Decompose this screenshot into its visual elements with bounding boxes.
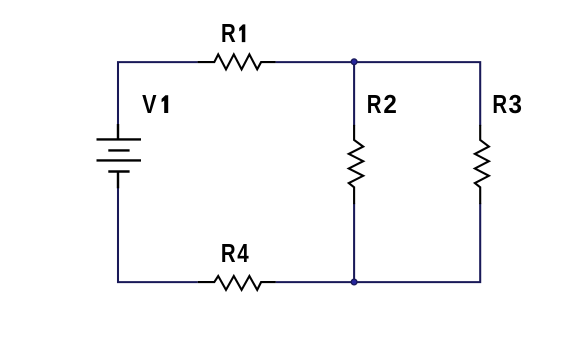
label V1 digit 1 [162,95,169,113]
label V1 letter V [142,91,157,119]
label R1 digit 1 [239,24,245,42]
svg-text:3: 3 [509,90,522,119]
svg-text:V: V [142,91,157,119]
svg-text:R: R [367,90,382,119]
resistor R3 (vertical, right) [475,125,489,204]
label R2 letter R [367,90,382,119]
label R4 digit 4 [237,239,248,268]
wire: R4 left lead to bottom-left corner, up to battery bottom lead [118,187,198,282]
resistor R2 (vertical, middle) [349,125,363,204]
label R3 letter R [492,90,507,119]
resistor R1 (horizontal, top) [198,54,276,69]
svg-text:2: 2 [383,90,396,119]
svg-text:R: R [221,19,236,48]
label R4 letter R [221,239,236,268]
svg-text:R: R [221,239,236,268]
node: top junction dot [351,59,357,65]
node: bottom junction dot [351,279,357,285]
wire: R3 bottom down to bottom-right corner, left to R4 [276,203,480,282]
wire: R2 bottom down to bottom junction [353,203,355,282]
wire: top junction down to R2 top [353,62,355,126]
resistor R4 (horizontal, bottom) [198,276,276,290]
battery V1 [97,124,142,188]
wire: R1 right lead to top-right corner, down to R3 top [276,62,481,126]
svg-text:4: 4 [237,239,248,268]
svg-text:R: R [492,90,507,119]
label R2 digit 2 [383,90,396,119]
wire: battery top lead up to top-left corner, then right to R1 [118,62,198,124]
label R3 digit 3 [509,90,522,119]
label R1 letter R [221,19,236,48]
